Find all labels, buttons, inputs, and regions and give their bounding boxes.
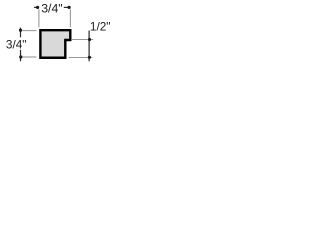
left dimension line upper segment [20, 28, 22, 38]
svg-text:3/4": 3/4" [6, 37, 27, 51]
left dimension extension line top [22, 30, 36, 32]
svg-text:3/4": 3/4" [41, 1, 62, 15]
top dimension dot left [36, 6, 39, 9]
right dimension extension line top [72, 39, 93, 41]
right dimension dot bottom [88, 56, 91, 59]
left dimension extension line bottom [23, 56, 37, 58]
right dimension line [88, 31, 90, 62]
top dimension line left segment [34, 6, 39, 8]
moulding profile cross-section [40, 30, 70, 58]
top dimension line right segment [64, 6, 69, 8]
top dimension dot right [68, 6, 71, 9]
left dimension line lower segment [20, 50, 22, 62]
top dimension extension line right [69, 9, 71, 27]
background [0, 0, 119, 73]
svg-text:1/2": 1/2" [90, 19, 111, 33]
top dimension extension line left [38, 9, 40, 27]
left dimension dot bottom [19, 55, 22, 58]
right dimension extension line bottom [69, 57, 93, 59]
right dimension dot top [88, 38, 91, 41]
left dimension dot top [19, 29, 22, 32]
